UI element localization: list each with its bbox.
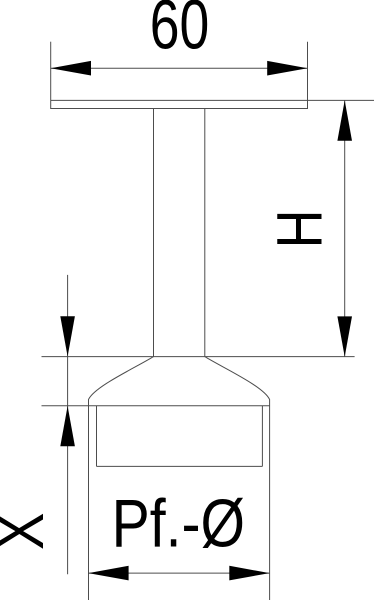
dome right curve xyxy=(205,357,270,400)
inner sleeve left edge xyxy=(96,406,98,467)
post right edge xyxy=(269,399,271,600)
inner sleeve bottom edge xyxy=(97,465,263,467)
plate top line extended right as H extension xyxy=(51,99,374,101)
svg-text:X: X xyxy=(0,513,57,550)
stem right line xyxy=(204,109,206,357)
dim X upper arrowhead (points down) xyxy=(60,316,75,356)
dim 60 left extension line xyxy=(50,42,52,101)
dim Pf right arrowhead xyxy=(229,566,269,581)
dome left curve xyxy=(89,357,154,400)
dim X lower arrowhead (points up) xyxy=(60,406,75,446)
dome base line / X bottom extension xyxy=(42,405,270,407)
dim H top arrowhead xyxy=(337,100,352,140)
dim 60 right extension line xyxy=(307,42,309,101)
dim X dimension line xyxy=(67,275,69,574)
svg-text:60: 60 xyxy=(150,0,210,64)
dim 60 left arrowhead xyxy=(51,61,91,76)
dim 60 dimension line xyxy=(51,67,308,69)
top plate outline xyxy=(51,100,308,108)
dim H bottom arrowhead xyxy=(337,316,352,356)
dim Pf left arrowhead xyxy=(88,566,128,581)
dim Pf diameter dimension line xyxy=(88,572,269,574)
dome top line / X top extension / H bottom extension xyxy=(42,356,355,358)
dim H dimension line xyxy=(344,100,346,356)
svg-text:Pf.-Ø: Pf.-Ø xyxy=(112,486,245,562)
inner sleeve right edge xyxy=(261,406,263,467)
dim 60 right arrowhead xyxy=(267,61,307,76)
post left edge xyxy=(88,399,90,600)
svg-text:H: H xyxy=(263,210,336,249)
stem left line xyxy=(153,109,155,357)
